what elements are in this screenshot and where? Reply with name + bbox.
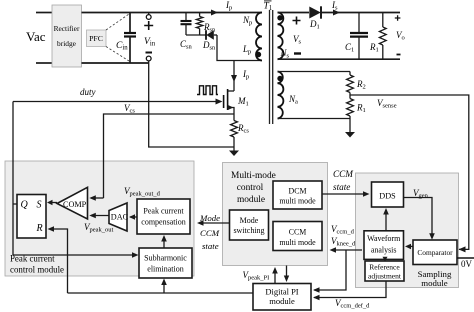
svg-text:Mode: Mode	[240, 216, 259, 225]
svg-text:control: control	[237, 183, 264, 193]
wire snubber to primary bottom	[217, 35, 262, 61]
label 0V	[457, 257, 474, 259]
capacitor C_in	[129, 13, 131, 34]
svg-text:elimination: elimination	[147, 265, 183, 274]
svg-text:DCM: DCM	[289, 187, 307, 196]
svg-text:DAC: DAC	[111, 213, 129, 222]
current arrow I_p primary	[211, 10, 218, 16]
wire bottom rail	[82, 62, 150, 64]
arrow into multimode	[330, 247, 337, 253]
arrow into comparator right	[459, 246, 466, 252]
block digital PI module	[253, 284, 311, 311]
diode D_sn	[205, 30, 207, 40]
wire CCM state to DDS	[322, 193, 364, 195]
arrow into compensation	[197, 220, 204, 226]
wire snubber bottom	[186, 34, 206, 36]
wire V_sense	[350, 95, 469, 249]
svg-text:control module: control module	[10, 265, 64, 275]
label minus Vs	[294, 52, 301, 54]
dashed link PFC top	[106, 14, 129, 30]
transformer secondary winding N_s	[278, 13, 284, 60]
block CCM multi mode	[273, 222, 322, 251]
terminal V_in minus	[146, 52, 153, 54]
svg-text:multi mode: multi mode	[279, 238, 316, 247]
svg-text:adjustment: adjustment	[368, 272, 402, 281]
resistor R_cs	[233, 114, 235, 121]
wire DDS to comparator	[404, 198, 433, 238]
arrow waveform to DDS	[385, 210, 387, 231]
svg-text:multi mode: multi mode	[279, 197, 316, 206]
svg-text:Rectifier: Rectifier	[54, 24, 80, 33]
wire Q to duty	[13, 102, 17, 256]
svg-text:module: module	[421, 278, 447, 288]
svg-text:Q: Q	[21, 200, 29, 211]
transformer aux winding N_a	[278, 72, 284, 119]
polarity dot aux	[277, 76, 282, 81]
wire Vin return	[149, 63, 234, 147]
wire waveform branch to PI	[314, 250, 346, 290]
wire Vknee to multimode	[334, 249, 362, 251]
svg-text:CCM: CCM	[289, 228, 307, 237]
transformer core	[269, 10, 271, 124]
arrow into DDS	[363, 191, 370, 197]
block waveform analysis	[364, 231, 404, 260]
dashed link PFC bottom	[106, 47, 129, 62]
resistor R_sn	[199, 13, 201, 17]
block subharmonic elimination	[139, 248, 192, 278]
arrow subharmonic to compensation	[163, 238, 165, 248]
label plus Vo	[395, 15, 401, 21]
svg-text:state: state	[333, 182, 350, 192]
svg-text:0V: 0V	[461, 259, 473, 269]
svg-text:Comparator: Comparator	[417, 248, 453, 257]
module box: peak current control module	[5, 161, 194, 276]
svg-text:COMP: COMP	[63, 200, 87, 209]
label plus Vs	[293, 17, 301, 25]
wire primary to drain	[233, 61, 235, 92]
arrow Vcs into COMP	[91, 197, 104, 199]
wire secondary top right	[321, 12, 401, 14]
block DCM multi mode	[273, 181, 322, 209]
svg-text:S: S	[37, 200, 42, 211]
polarity dot secondary	[277, 15, 282, 20]
svg-text:PFC: PFC	[89, 34, 103, 43]
svg-text:compensation: compensation	[141, 218, 185, 227]
arrow comparator to waveform	[407, 245, 413, 247]
rectifier bridge block	[52, 5, 82, 67]
dac DAC	[109, 203, 127, 231]
wire mode to compensation	[199, 222, 229, 224]
wire duty to subharmonic	[13, 254, 132, 256]
svg-text:bridge: bridge	[57, 39, 77, 48]
svg-text:module: module	[237, 195, 265, 205]
wire aux top	[278, 71, 351, 73]
PFC block	[87, 30, 107, 47]
wire top rail	[82, 12, 263, 14]
svg-text:Waveform: Waveform	[367, 234, 401, 243]
current arrow I_s	[333, 10, 340, 16]
capacitor C1	[358, 13, 360, 34]
wire AC bottom	[36, 62, 52, 64]
block DDS	[372, 182, 404, 207]
svg-text:CCM: CCM	[333, 169, 354, 179]
wire secondary bottom	[278, 58, 401, 60]
capacitor C_sn	[185, 13, 187, 22]
diode D1	[309, 7, 321, 19]
svg-text:analysis: analysis	[371, 246, 396, 255]
block reference adjustment	[365, 261, 404, 281]
wire PI to multimode up	[274, 270, 276, 284]
block comparator	[413, 240, 457, 265]
block mode switching	[230, 210, 269, 240]
resistor R1 divider	[347, 99, 354, 117]
svg-text:Reference: Reference	[369, 263, 400, 272]
svg-text:switching: switching	[233, 226, 264, 235]
arrow waveform to reference	[384, 258, 386, 260]
arrow into subharmonic	[132, 252, 139, 258]
gate pulse symbol	[197, 86, 218, 95]
wire aux bottom	[278, 118, 351, 120]
resistor R1 output	[382, 13, 384, 28]
block peak current compensation	[137, 199, 190, 234]
arrow compensation to DAC	[130, 216, 137, 218]
wire multimode to PI down	[286, 266, 288, 280]
svg-text:Vac: Vac	[26, 29, 46, 44]
arrow feedback into subharmonic bottom	[163, 281, 165, 293]
module box: sampling module	[356, 173, 459, 288]
svg-text:Multi-mode: Multi-mode	[231, 171, 276, 181]
arrow into gate	[216, 99, 223, 105]
wire feedback bottom	[68, 292, 254, 294]
ground aux	[345, 132, 355, 138]
svg-text:Peak current: Peak current	[143, 207, 184, 216]
mosfet M1	[223, 95, 225, 108]
terminal V_in plus	[148, 13, 150, 15]
arrow DAC to COMP	[91, 215, 109, 217]
wire reference to PI	[314, 281, 386, 298]
resistor R2 divider	[349, 72, 351, 76]
svg-text:DDS: DDS	[379, 192, 396, 201]
svg-text:CCM: CCM	[200, 228, 220, 238]
transformer T1 primary winding N_p L_p	[256, 13, 262, 61]
wire V_cs	[104, 114, 235, 198]
module box: multi-mode control module	[223, 163, 328, 266]
wire secondary top	[278, 12, 310, 14]
svg-text:Subharmonic: Subharmonic	[144, 254, 187, 263]
arrow into R	[48, 226, 55, 232]
comparator COMP	[57, 187, 88, 219]
svg-text:R: R	[36, 223, 43, 234]
svg-text:duty: duty	[80, 87, 96, 97]
flip-flop SR	[17, 195, 46, 239]
wire R input	[50, 229, 68, 293]
label minus Vo	[397, 54, 401, 56]
ground primary	[229, 151, 239, 157]
polarity dot primary	[255, 52, 261, 58]
wire COMP to S	[51, 202, 57, 204]
svg-text:module: module	[269, 296, 295, 306]
svg-text:state: state	[202, 241, 219, 251]
wire AC top	[36, 12, 52, 14]
current arrow I_p drain	[231, 75, 237, 82]
wire duty to gate	[13, 101, 216, 103]
arrow into comparator top	[429, 233, 435, 240]
